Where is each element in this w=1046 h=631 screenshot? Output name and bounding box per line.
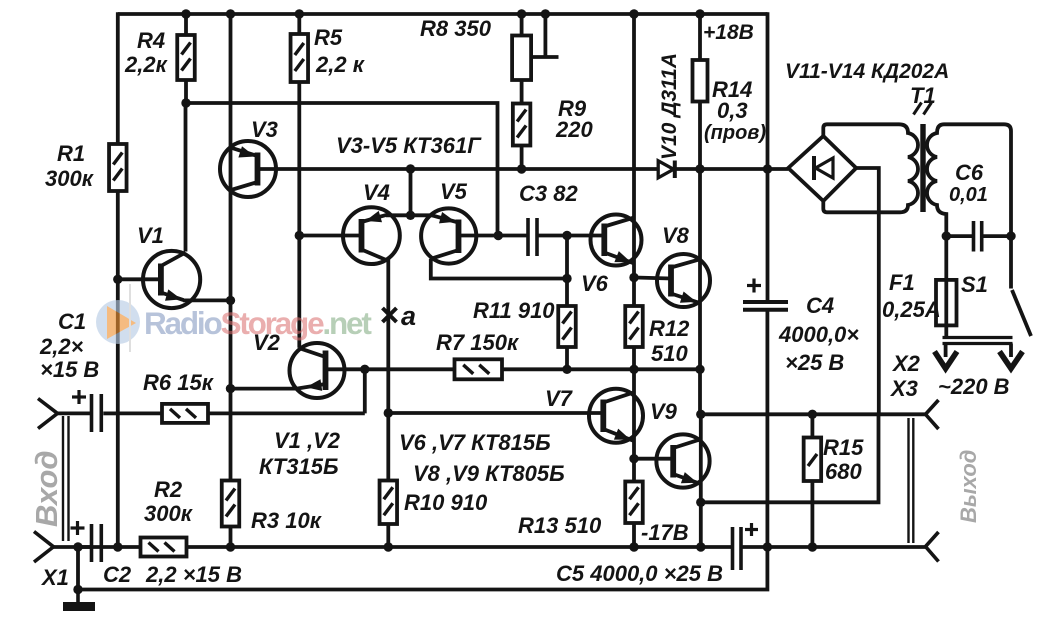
- wire C6 link across secondary: [946, 234, 1011, 238]
- svg-text:V6: V6: [581, 271, 609, 296]
- capacitor C5 (plates): [733, 527, 742, 570]
- svg-text:V3: V3: [251, 117, 278, 142]
- svg-text:V6 ,V7 КТ815Б: V6 ,V7 КТ815Б: [399, 430, 551, 455]
- wire bottom line right of C5 to X3: [741, 545, 926, 549]
- wire V9 column (collector up / emitter down): [699, 414, 703, 549]
- connector output lower pin (arrow): [926, 532, 939, 562]
- label R7 150к: [436, 330, 520, 355]
- capacitor C1 (plates): [92, 394, 102, 432]
- label S1: [961, 272, 988, 297]
- connector X2/X3 output upper pin (arrow): [926, 400, 939, 429]
- label R9 220: [555, 96, 593, 142]
- wire V10 cathode to bridge: [675, 167, 789, 171]
- wire R4 leads: [184, 14, 188, 105]
- svg-text:X2: X2: [891, 351, 921, 376]
- svg-text:R4: R4: [137, 28, 165, 53]
- label а: [401, 301, 416, 331]
- resistor R12: [625, 306, 643, 347]
- label R4 2,2к: [124, 28, 169, 77]
- svg-text:×25 В: ×25 В: [785, 350, 844, 375]
- svg-text:X3: X3: [889, 376, 918, 401]
- wire output line to X2: [701, 412, 926, 416]
- capacitor C6 (plates): [974, 221, 982, 252]
- svg-text:0,25А: 0,25А: [882, 297, 941, 322]
- label V8: [662, 223, 690, 248]
- connector X1 lower pin (arrow): [34, 532, 54, 563]
- watermark logo: [96, 284, 140, 352]
- wire V5 base to C3: [459, 234, 529, 238]
- svg-text:V10 Д311А: V10 Д311А: [658, 53, 681, 160]
- label V2: [253, 330, 281, 355]
- svg-text:R12: R12: [649, 316, 690, 341]
- svg-text:R1: R1: [57, 141, 85, 166]
- svg-text:V4: V4: [363, 180, 390, 205]
- label R2 300к: [144, 477, 194, 526]
- svg-text:(пров): (пров): [704, 122, 766, 144]
- wire V4 collector column through node a to R10: [386, 260, 390, 549]
- resistor R10: [380, 481, 398, 525]
- wire V1 collector riser to R4 node: [184, 103, 188, 252]
- output cable (double line): [909, 418, 914, 543]
- svg-text:220: 220: [555, 117, 593, 142]
- svg-text:Выход: Выход: [956, 450, 981, 523]
- label V3-V5 КТ361Г: [336, 133, 482, 158]
- resistor R3: [222, 481, 240, 527]
- polarity + of C5: [745, 523, 758, 536]
- svg-text:+18В: +18В: [703, 21, 754, 44]
- wire ground return rail: [78, 547, 767, 590]
- wire V4/V5 emitter riser and tie: [386, 167, 433, 215]
- label V9: [650, 399, 678, 424]
- wire V4-collector node to V7 base: [388, 411, 603, 415]
- label C6 0,01: [949, 160, 988, 206]
- wire V1 base lead: [118, 277, 161, 281]
- label X2: [891, 351, 921, 376]
- svg-text:V11-V14 КД202А: V11-V14 КД202А: [785, 60, 949, 83]
- mains pin arrow left: [935, 344, 958, 369]
- svg-text:2,2 ×15 В: 2,2 ×15 В: [145, 562, 242, 587]
- svg-text:2,2к: 2,2к: [124, 52, 169, 77]
- svg-text:×15 В: ×15 В: [40, 357, 99, 382]
- transistor V7: [589, 389, 643, 443]
- wire +18V top supply rail: [118, 12, 768, 16]
- svg-text:300к: 300к: [144, 501, 194, 526]
- svg-text:R13 510: R13 510: [518, 513, 602, 538]
- capacitor C4 (plates): [743, 302, 788, 310]
- wire V2 emitter to common-emitter node: [231, 387, 297, 391]
- wire V3 column (emitter up / collector down to V1,V2 emitters, R3): [229, 14, 233, 549]
- transistor V4 (PNP): [343, 207, 400, 264]
- label X3: [889, 376, 918, 401]
- label C5 4000,0×25В: [556, 561, 723, 586]
- watermark text: [144, 305, 372, 341]
- svg-text:RadioStorage.net: RadioStorage.net: [144, 305, 372, 341]
- label ~220В: [938, 374, 1010, 399]
- transistor V2: [290, 343, 345, 398]
- svg-text:0,3: 0,3: [717, 98, 748, 123]
- label V3: [251, 117, 278, 142]
- svg-text:R6 15к: R6 15к: [143, 370, 215, 395]
- wire bridge minus drop to output line: [856, 168, 879, 414]
- wire C3 to V6 base: [537, 234, 604, 238]
- wire C4 column bottom: [766, 311, 770, 549]
- connector X1 upper pin (arrow): [38, 399, 58, 429]
- label R1 300к: [45, 141, 95, 191]
- svg-text:КТ315Б: КТ315Б: [259, 454, 339, 479]
- svg-text:V1 ,V2: V1 ,V2: [274, 428, 341, 453]
- wire right supply drop to C4 top: [766, 12, 770, 302]
- ground symbol: [63, 590, 95, 607]
- resistor R11: [558, 306, 576, 347]
- svg-text:S1: S1: [961, 272, 988, 297]
- svg-text:2,2 к: 2,2 к: [315, 52, 366, 77]
- fuse F1: [936, 236, 957, 337]
- label R6 15к: [143, 370, 215, 395]
- label F1 0,25А: [882, 270, 941, 322]
- resistor R2 (horizontal): [141, 538, 187, 557]
- wire X1 lower pin to C2: [53, 545, 91, 549]
- label X1: [40, 565, 69, 590]
- svg-text:R10 910: R10 910: [404, 490, 488, 515]
- wire C3/V6 node down to R11, R11 to feedback line: [565, 236, 569, 372]
- resistor R8 (plain, tapped): [512, 36, 531, 81]
- svg-text:С6: С6: [955, 160, 984, 185]
- wire V2-base branch down to R6: [363, 369, 367, 413]
- svg-text:V3-V5 КТ361Г: V3-V5 КТ361Г: [336, 133, 482, 158]
- label V8,V9 КТ805Б: [413, 461, 565, 486]
- label +18В: [703, 21, 754, 44]
- wire left column V1-base/R1/C1/C2 net: [116, 12, 120, 549]
- svg-text:~220 В: ~220 В: [938, 374, 1010, 399]
- svg-text:R15: R15: [823, 435, 864, 460]
- wire R15 leads: [811, 414, 815, 549]
- wire C1 to input / C1 to V1 base column: [57, 411, 118, 415]
- svg-text:V1: V1: [137, 223, 164, 248]
- node a (cross mark): [383, 308, 397, 322]
- resistor R14 (plain): [693, 60, 708, 102]
- svg-text:V7: V7: [545, 386, 574, 411]
- label V1,V2 КТ315Б: [259, 428, 341, 479]
- diode V10: [658, 161, 675, 179]
- resistor R1: [109, 144, 127, 191]
- svg-text:F1: F1: [889, 270, 915, 295]
- resistor R4: [177, 35, 195, 80]
- wire V6-collector column from rail / R12 / R13 chain: [632, 14, 636, 549]
- mains plug bars: [943, 338, 1013, 344]
- label C1 2,2×15В: [39, 309, 99, 382]
- svg-text:а: а: [401, 301, 416, 331]
- svg-text:2,2×: 2,2×: [39, 334, 84, 359]
- svg-text:-17В: -17В: [641, 520, 689, 545]
- svg-text:0,01: 0,01: [949, 184, 988, 206]
- resistor R9: [513, 104, 531, 146]
- polarity + of C1: [72, 390, 86, 404]
- svg-text:С5 4000,0 ×25 В: С5 4000,0 ×25 В: [556, 561, 723, 586]
- capacitor C2 (plates): [92, 524, 102, 562]
- wire V6 emitter node to V8 base: [634, 278, 671, 279]
- transistor V5 (PNP): [421, 208, 476, 263]
- svg-text:R3 10к: R3 10к: [251, 508, 323, 533]
- resistor R15: [804, 438, 822, 482]
- svg-text:4000,0×: 4000,0×: [778, 322, 859, 347]
- transistor V1: [143, 251, 200, 308]
- transformer T1 core marks: [914, 103, 932, 115]
- wire R8-R9 series chain: [520, 14, 524, 171]
- resistor R6 (horizontal): [162, 404, 208, 423]
- wire R4-bottom to V5-collector link (horizontal + drop): [186, 103, 498, 236]
- resistor R13: [625, 482, 643, 524]
- label C2 2,2×15В: [103, 562, 242, 587]
- label C3 82: [519, 181, 578, 206]
- svg-text:V5: V5: [440, 179, 468, 204]
- svg-text:300к: 300к: [45, 166, 95, 191]
- label R8 350: [420, 16, 492, 41]
- transistor V8: [657, 254, 710, 307]
- mains pin arrow right: [1000, 344, 1023, 369]
- label R12 510: [649, 316, 690, 366]
- svg-text:V8 ,V9 КТ805Б: V8 ,V9 КТ805Б: [413, 461, 565, 486]
- svg-text:R8 350: R8 350: [420, 16, 492, 41]
- label V6,V7 КТ815Б: [399, 430, 551, 455]
- label V6: [581, 271, 609, 296]
- polarity + of C4: [747, 279, 761, 293]
- label -17В: [641, 520, 689, 545]
- transformer T1 primary loop: [823, 124, 918, 212]
- label V10 Д311А (vertical): [658, 53, 681, 160]
- label Выход (gray): [956, 450, 981, 523]
- resistor R5: [291, 34, 309, 82]
- svg-text:R11 910: R11 910: [473, 298, 555, 323]
- label R3 10к: [251, 508, 323, 533]
- transistor V9: [656, 434, 709, 487]
- wire R5 node to V4 base: [299, 234, 361, 238]
- label V7: [545, 386, 574, 411]
- bridge rectifier V11-V14: [788, 136, 856, 201]
- svg-text:V9: V9: [650, 399, 678, 424]
- transformer T1 secondary winding: [927, 124, 1011, 236]
- transformer T1 core: [920, 124, 925, 212]
- svg-text:R5: R5: [314, 25, 343, 50]
- wire feedback line V2-base to output column (R7 net): [327, 367, 700, 371]
- wire V9 emitter line to output riser: [701, 414, 879, 502]
- svg-text:V8: V8: [662, 223, 690, 248]
- wire bottom common line (left of C5): [78, 545, 732, 549]
- svg-text:X1: X1: [40, 565, 69, 590]
- svg-text:510: 510: [651, 341, 688, 366]
- svg-text:С4: С4: [806, 293, 834, 318]
- wire V1 emitter to common-emitter node: [183, 298, 231, 302]
- label R10 910: [404, 490, 488, 515]
- resistor R7 (horizontal): [455, 359, 503, 379]
- wire V2 collector riser to R5/V4 node: [297, 236, 301, 348]
- switch S1: [1011, 236, 1031, 336]
- label V4: [363, 180, 390, 205]
- label R13 510: [518, 513, 602, 538]
- wire V3-base line to diode V10 anode: [258, 167, 660, 171]
- svg-text:R7 150к: R7 150к: [436, 330, 520, 355]
- transistor V6: [591, 215, 642, 266]
- input cable (double line): [63, 416, 69, 541]
- label C4 4000,0×25В: [778, 293, 859, 375]
- label R5 2,2к: [314, 25, 366, 77]
- wire R5 leads / R5 to V4 base drop: [297, 14, 301, 237]
- svg-text:Т1: Т1: [910, 83, 936, 108]
- label R15 680: [823, 435, 864, 484]
- svg-text:680: 680: [825, 459, 862, 484]
- svg-text:С2: С2: [103, 562, 132, 587]
- label V5: [440, 179, 468, 204]
- wire R8 tap stub: [533, 14, 559, 57]
- svg-text:С3 82: С3 82: [519, 181, 578, 206]
- wire V8 collector/emitter column: [698, 167, 702, 414]
- label Вход (gray): [29, 450, 64, 527]
- label R14 0,3 (пров): [704, 77, 766, 144]
- polarity + of C2: [71, 521, 85, 535]
- transistor V3 (PNP): [220, 141, 276, 197]
- label R11 910: [473, 298, 555, 323]
- label V11-V14 КД202А: [785, 60, 949, 83]
- capacitor C3 (plates): [528, 218, 537, 256]
- wire V7 emitter node to V9 base: [634, 457, 673, 461]
- wire V5 collector to R11 top node: [431, 259, 567, 279]
- label Т1: [910, 83, 936, 108]
- wire R14 leads: [698, 14, 702, 171]
- svg-text:С1: С1: [58, 309, 86, 334]
- label V1: [137, 223, 164, 248]
- wire R6 leads: [118, 411, 365, 415]
- svg-text:Вход: Вход: [29, 450, 64, 527]
- svg-text:R2: R2: [154, 477, 183, 502]
